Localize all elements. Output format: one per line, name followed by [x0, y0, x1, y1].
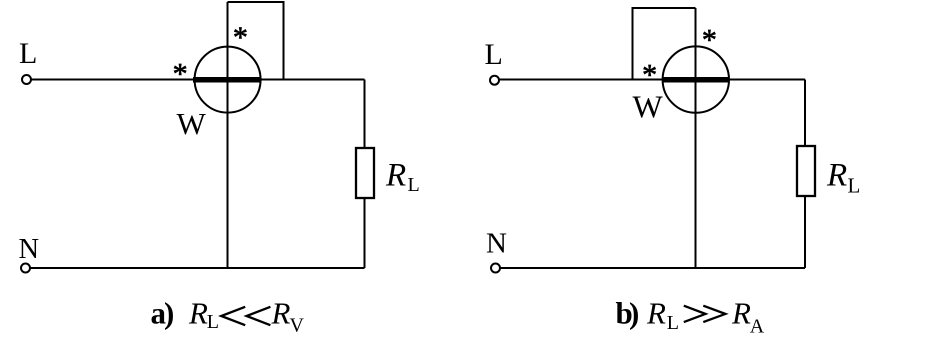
svg-text:N: N	[19, 234, 40, 265]
caption a) RL << RV	[151, 296, 305, 337]
svg-text:R: R	[271, 296, 291, 331]
svg-text:L: L	[485, 38, 503, 71]
wire down to resistor (circuit b)	[804, 80, 806, 147]
svg-text:): )	[629, 296, 639, 331]
wire resistor to bottom (circuit b)	[804, 196, 806, 268]
wire down to resistor (circuit a)	[364, 80, 366, 149]
terminal N (circuit a)	[21, 264, 30, 273]
svg-text:*: *	[642, 59, 657, 92]
svg-text:N: N	[486, 228, 507, 260]
svg-text:*: *	[173, 58, 188, 91]
wattmeter current coil bar (circuit a)	[193, 77, 261, 83]
svg-text:*: *	[702, 23, 717, 56]
wire L to load (top wire, circuit b)	[500, 79, 806, 81]
voltage-coil vertical wire (circuit a)	[227, 2, 229, 268]
terminal N (circuit b)	[491, 264, 500, 273]
wattmeter current coil bar (circuit b)	[663, 77, 730, 83]
svg-text:L: L	[19, 37, 37, 70]
svg-text:L: L	[667, 312, 679, 334]
svg-text:W: W	[177, 106, 207, 141]
voltage-coil loop wire (circuit b)	[633, 8, 696, 80]
svg-text:R: R	[731, 296, 751, 331]
svg-text:L: L	[848, 174, 861, 198]
svg-text:R: R	[188, 296, 208, 331]
svg-text:W: W	[633, 89, 664, 125]
svg-text:R: R	[826, 158, 847, 194]
svg-text:): )	[164, 296, 174, 331]
svg-text:L: L	[408, 174, 420, 196]
svg-text:A: A	[750, 315, 765, 337]
voltage-coil loop wire (circuit a)	[228, 2, 284, 80]
wire resistor to bottom (circuit a)	[364, 198, 366, 268]
bottom wire N (circuit a)	[31, 267, 365, 269]
terminal L (circuit a)	[22, 75, 31, 84]
wattmeter W (circuit a)	[195, 47, 261, 113]
resistor RL (circuit a)	[356, 148, 374, 198]
wire L to load (top wire, circuit a)	[32, 79, 365, 81]
svg-text:L: L	[207, 311, 219, 333]
terminal L (circuit b)	[490, 76, 499, 85]
svg-text:*: *	[233, 21, 248, 54]
voltage-coil vertical wire (circuit b)	[695, 8, 697, 268]
wattmeter W (circuit b)	[663, 46, 729, 112]
svg-text:V: V	[290, 315, 305, 337]
svg-text:R: R	[385, 158, 406, 194]
resistor RL (circuit b)	[797, 146, 815, 196]
bottom wire N (circuit b)	[500, 267, 805, 269]
caption b) RL >> RA	[616, 296, 765, 338]
svg-text:R: R	[646, 296, 666, 331]
